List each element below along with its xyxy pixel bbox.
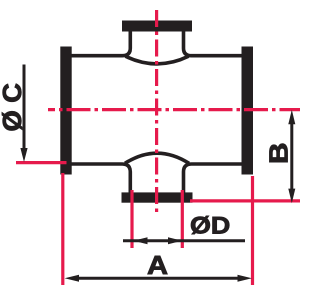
svg-text:Ø C: Ø C [0, 83, 27, 132]
svg-text:A: A [147, 250, 168, 279]
svg-text:B: B [264, 142, 293, 164]
svg-text:ØD: ØD [190, 213, 230, 239]
